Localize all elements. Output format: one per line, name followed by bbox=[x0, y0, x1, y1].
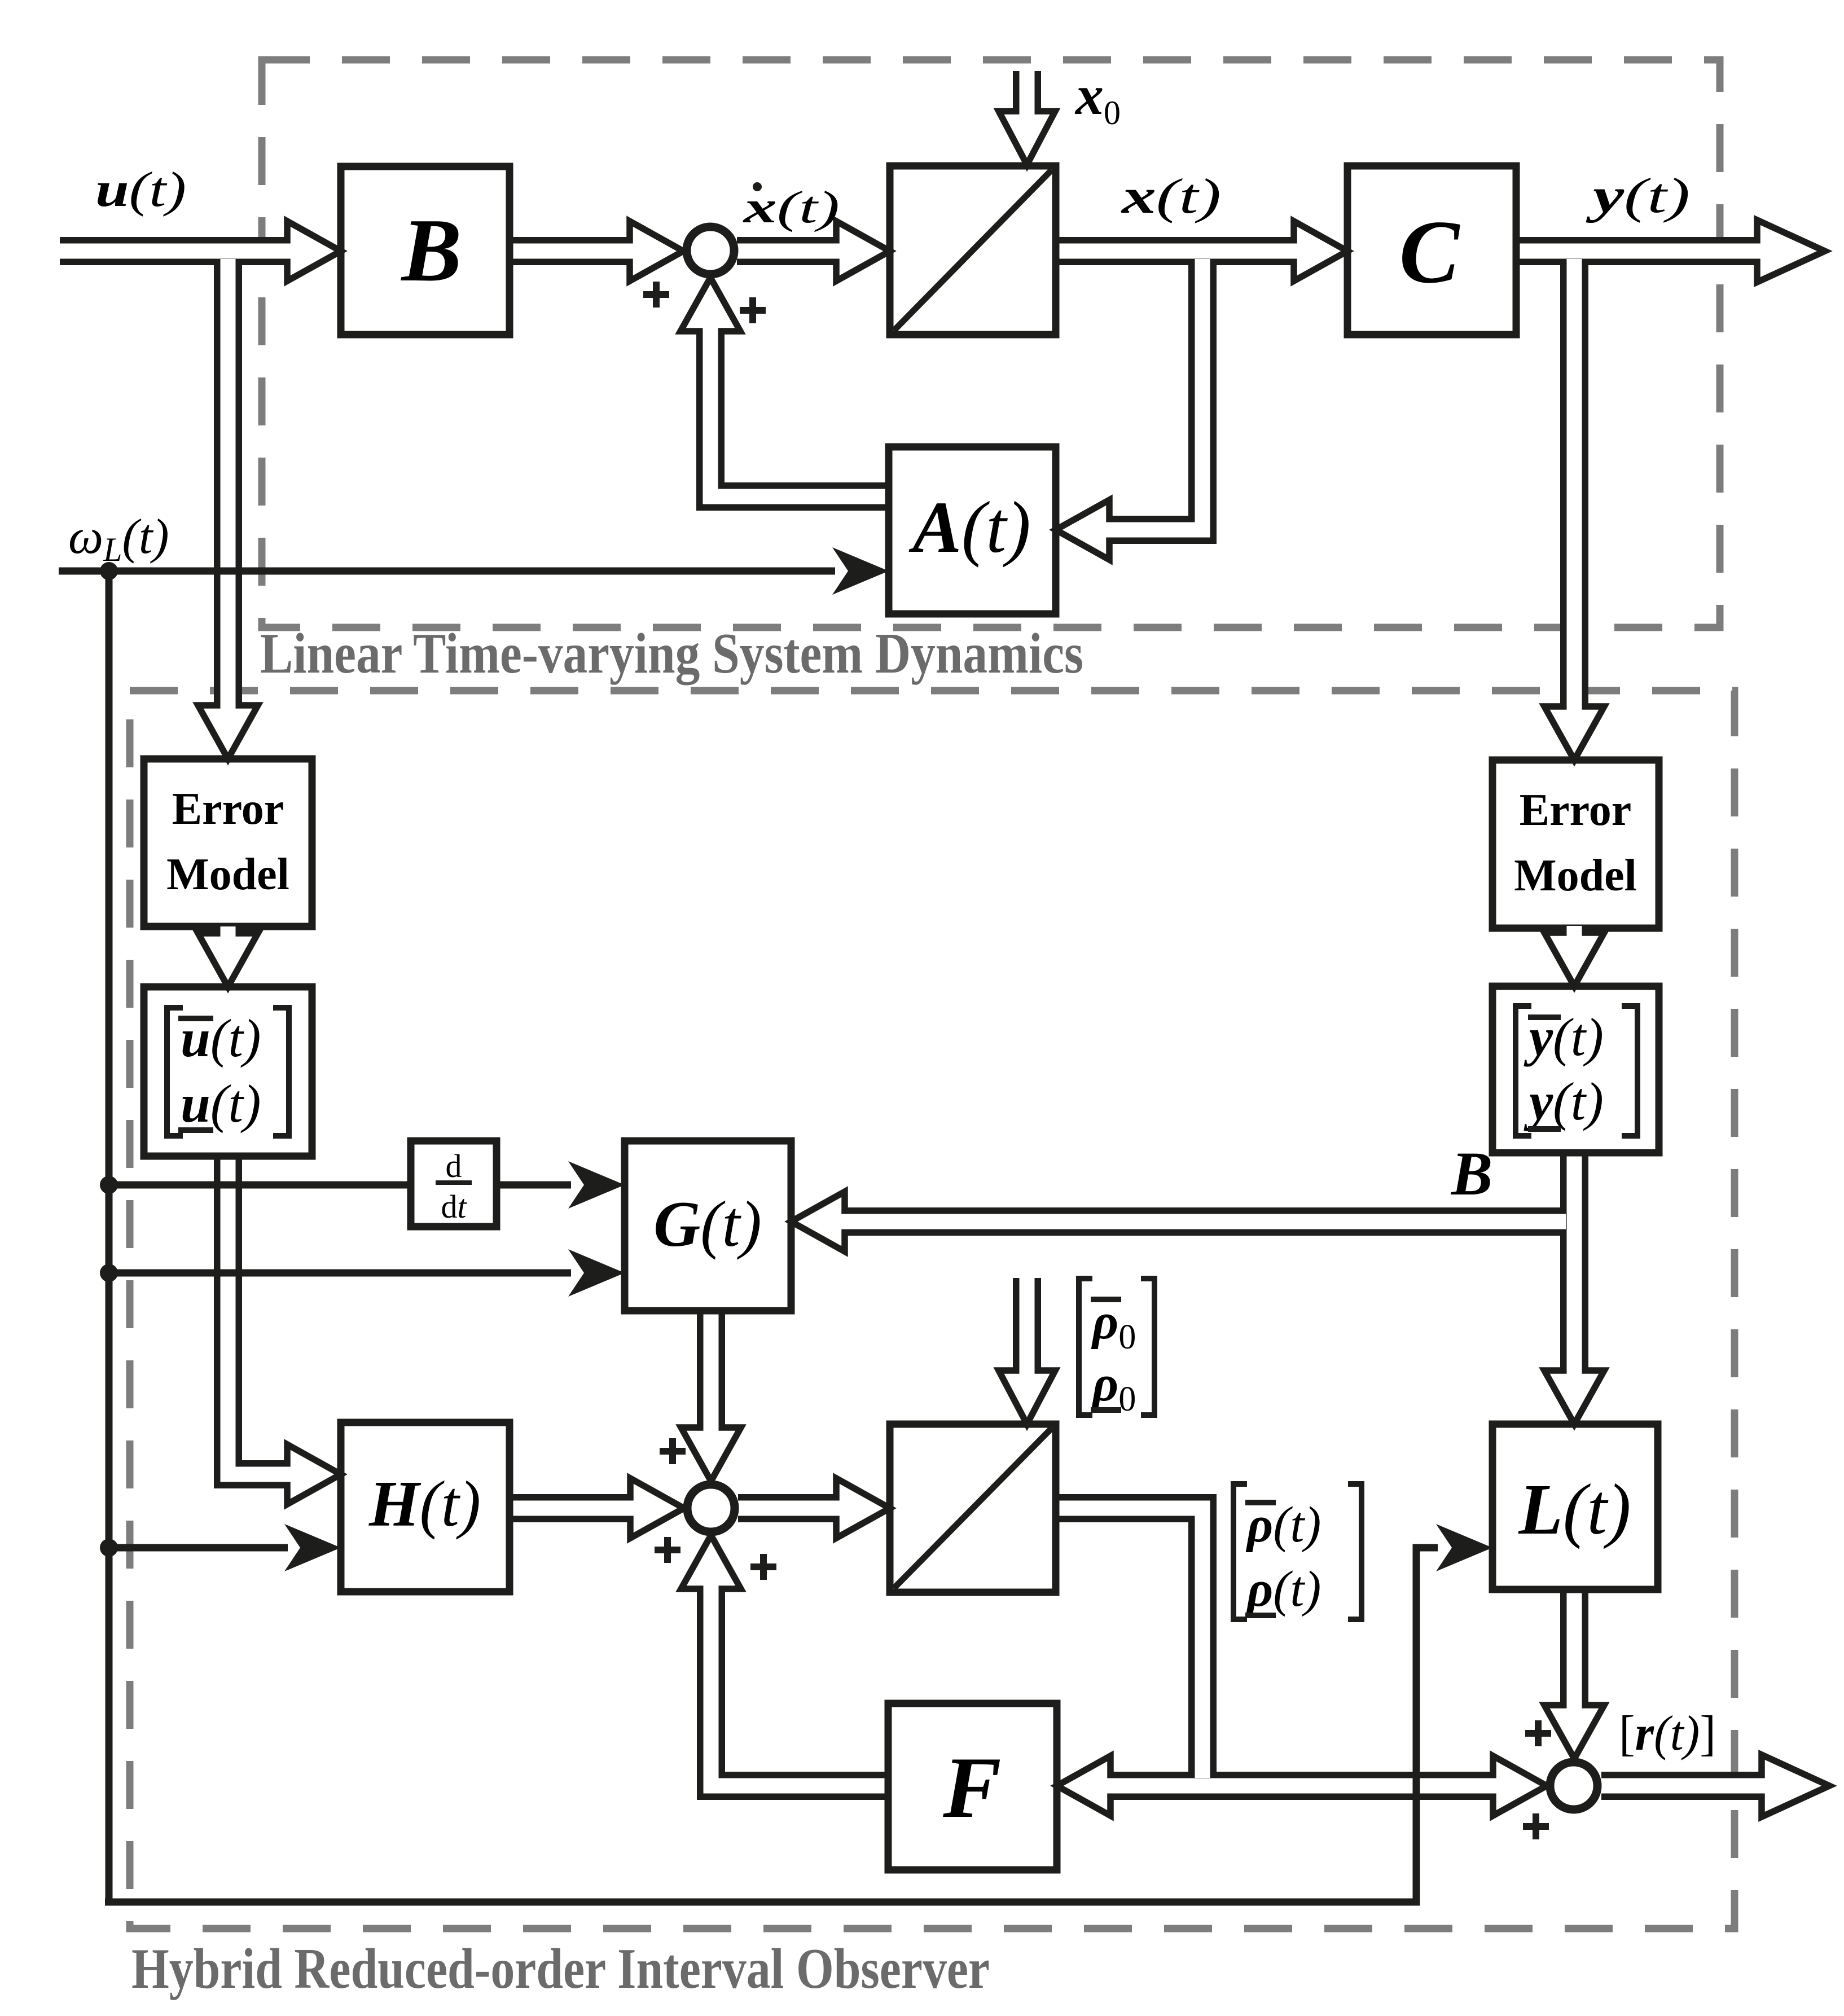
wire omega rail to H(t) bbox=[109, 1544, 288, 1552]
arrowhead F output into S2 bbox=[681, 1535, 741, 1605]
arrowhead u branch into Error Model left bbox=[198, 689, 258, 759]
arrowhead d/dt into G(t) bbox=[568, 1161, 625, 1209]
block Error Model left bbox=[144, 759, 312, 926]
summing junction S2 bbox=[687, 1484, 735, 1532]
arrowhead x into C bbox=[1278, 221, 1347, 281]
block F bbox=[888, 1703, 1057, 1870]
wire integrator 2 output to rho line bbox=[1056, 1508, 1202, 1778]
plus sign S3 top-left bbox=[1525, 1720, 1551, 1746]
matrix [ybar(t); ylow(t)] bbox=[1516, 1006, 1637, 1136]
svg-text:Model: Model bbox=[166, 850, 289, 899]
block B bbox=[341, 166, 510, 335]
arrowhead omega into H(t) bbox=[284, 1524, 341, 1571]
svg-text:L(t): L(t) bbox=[1518, 1469, 1631, 1549]
plus sign S3 bottom-left bbox=[1523, 1813, 1549, 1839]
block A(t) bbox=[889, 447, 1056, 614]
plus sign S1 left bbox=[643, 282, 669, 308]
label [rhobar0; rholow0] bbox=[1079, 1279, 1154, 1418]
svg-text:u(t): u(t) bbox=[181, 1074, 261, 1134]
wire rho0 initial condition stub bbox=[1013, 1278, 1041, 1355]
summing junction S1 bbox=[687, 227, 734, 274]
svg-text:y(t): y(t) bbox=[1524, 1071, 1604, 1131]
wire y(t) branch down to Error Model right bbox=[1560, 259, 1588, 691]
wire omega rail bottom feedback to L(t) bbox=[105, 1548, 1438, 1902]
arrowhead r(t) output bbox=[1745, 1755, 1829, 1817]
arrowhead omega into G(t) bbox=[568, 1249, 625, 1297]
svg-text:Error: Error bbox=[1520, 785, 1631, 835]
wire d/dt to G(t) bbox=[497, 1182, 571, 1189]
arrowhead A(t) into S1 bbox=[680, 278, 740, 347]
junction dot omega junction to d/dt bbox=[100, 1176, 118, 1194]
junction dot omega junction at input bbox=[100, 562, 118, 580]
block C bbox=[1347, 166, 1516, 335]
arrowhead rho into F bbox=[1057, 1756, 1126, 1816]
arrowhead omega into A(t) bbox=[832, 547, 889, 595]
wire rho line F input / r junction bbox=[1126, 1772, 1477, 1800]
svg-text:C: C bbox=[1399, 201, 1461, 302]
label [rhobar(t); rholow(t)] bbox=[1233, 1484, 1362, 1619]
junction dot omega junction to G(t) bbox=[100, 1264, 118, 1282]
wire S1 to integrator 1 bbox=[737, 237, 820, 265]
wire x(t) branch to A(t) bbox=[1125, 259, 1202, 530]
arrowhead x branch into A(t) bbox=[1056, 500, 1125, 560]
block integrator 2 bbox=[890, 1424, 1056, 1592]
arrowhead B into S1 bbox=[614, 221, 683, 281]
arrowhead L(t) into S3 bbox=[1544, 1689, 1604, 1759]
arrowhead feedback into L(t) bbox=[1436, 1524, 1492, 1571]
svg-text:y(t): y(t) bbox=[1586, 169, 1690, 223]
plus sign S2 left bbox=[655, 1537, 680, 1563]
wire S2 to integrator 2 bbox=[738, 1494, 820, 1522]
wire H(t) output to S2 bbox=[510, 1494, 615, 1522]
arrowhead u into B bbox=[271, 221, 341, 281]
arrowhead S2 into integrator 2 bbox=[820, 1478, 890, 1538]
svg-text:dt: dt bbox=[441, 1188, 467, 1225]
label xdot(t) bbox=[743, 182, 840, 232]
svg-text:F: F bbox=[942, 1739, 1001, 1836]
arrowhead y branch into Error Model right bbox=[1544, 691, 1604, 760]
wire y(t) C to output bbox=[1516, 237, 1740, 265]
wire branch from [y] line left to G(t) bbox=[860, 1207, 1566, 1236]
arrowhead H(t) into S2 bbox=[614, 1478, 684, 1538]
arrowhead Error Model right into [y] box bbox=[1544, 926, 1604, 986]
arrowhead y output bbox=[1740, 220, 1825, 282]
junction dot omega junction to H(t) bbox=[100, 1539, 118, 1557]
summing junction S3 r(t) bbox=[1550, 1762, 1597, 1809]
block label d/dt bbox=[436, 1148, 472, 1225]
arrowhead rho into S3 bbox=[1477, 1756, 1547, 1816]
svg-text:[r(t)]: [r(t)] bbox=[1619, 1706, 1716, 1761]
block L(t) bbox=[1492, 1424, 1658, 1589]
wire r(t) output bbox=[1601, 1772, 1745, 1800]
wire x(t) integrator 1 to C bbox=[1056, 237, 1278, 265]
wire omega_L(t) vertical rail bbox=[106, 571, 113, 1902]
plus sign S1 bottom bbox=[740, 297, 766, 323]
arrowhead G(t) into S2 bbox=[681, 1412, 741, 1481]
matrix [ubar(t); ulow(t)] bbox=[167, 1008, 289, 1136]
svg-text:A(t): A(t) bbox=[908, 487, 1030, 568]
wire [u] box output down then right to H(t) bbox=[228, 1156, 271, 1474]
wire omega rail to G(t) bbox=[109, 1270, 571, 1277]
block [y(t)] interval box bbox=[1492, 986, 1659, 1153]
block integrator 1 bbox=[890, 166, 1056, 335]
wire x0 initial condition stub bbox=[1013, 71, 1041, 95]
wire omega rail to d/dt bbox=[109, 1182, 411, 1189]
block d/dt bbox=[411, 1141, 497, 1227]
block Error Model right bbox=[1492, 760, 1659, 928]
dashed boundary: Hybrid Reduced-order Interval Observer bbox=[130, 691, 1735, 1929]
svg-text:Error: Error bbox=[172, 784, 284, 834]
wire G(t) output down to S2 bbox=[697, 1311, 725, 1412]
svg-text:G(t): G(t) bbox=[653, 1188, 762, 1260]
svg-text:u(t): u(t) bbox=[95, 162, 186, 217]
dashed boundary: Linear Time-varying System Dynamics bbox=[262, 60, 1720, 627]
svg-text:B: B bbox=[401, 200, 462, 300]
plus sign S2 bottom-right bbox=[750, 1554, 776, 1580]
svg-text:Hybrid Reduced-order Interval: Hybrid Reduced-order Interval Observer bbox=[131, 1937, 990, 2001]
arrowhead [y] branch into G(t) bbox=[791, 1192, 860, 1251]
wire [y] box output down to L(t) bbox=[1560, 1153, 1588, 1355]
wire u(t) input to B bbox=[60, 237, 271, 265]
wire L(t) output down to r junction bbox=[1560, 1589, 1588, 1689]
arrowhead [y] into L(t) bbox=[1544, 1355, 1604, 1424]
arrowhead rho0 into integrator 2 bbox=[999, 1355, 1055, 1424]
svg-text:H(t): H(t) bbox=[368, 1468, 481, 1540]
block G(t) bbox=[625, 1141, 791, 1311]
svg-text:d: d bbox=[446, 1148, 462, 1184]
wire u(t) branch down to Error Model left bbox=[214, 259, 242, 689]
svg-text:Linear Time-varying System Dyn: Linear Time-varying System Dynamics bbox=[260, 622, 1083, 686]
arrowhead x0 into integrator 1 bbox=[999, 95, 1055, 165]
wire B to summing junction S1 bbox=[510, 237, 614, 265]
arrowhead [u] into H(t) bbox=[271, 1444, 341, 1504]
block [u(t)] interval box bbox=[144, 987, 312, 1156]
arrowhead Error Model left into [u] box bbox=[198, 926, 258, 987]
svg-text:Model: Model bbox=[1514, 851, 1637, 901]
block H(t) bbox=[341, 1422, 510, 1592]
svg-text:B: B bbox=[1450, 1139, 1492, 1208]
wire F output up to S2 bbox=[711, 1605, 888, 1786]
svg-text:ρ(t): ρ(t) bbox=[1245, 1561, 1321, 1617]
plus sign S2 top-left bbox=[660, 1438, 686, 1464]
svg-text:x(t): x(t) bbox=[1120, 169, 1221, 224]
wire omega_L(t) input to A(t) bbox=[59, 568, 835, 575]
arrowhead S1 into integrator 1 bbox=[820, 221, 890, 281]
wire A(t) feedback to S1 bbox=[710, 347, 889, 497]
